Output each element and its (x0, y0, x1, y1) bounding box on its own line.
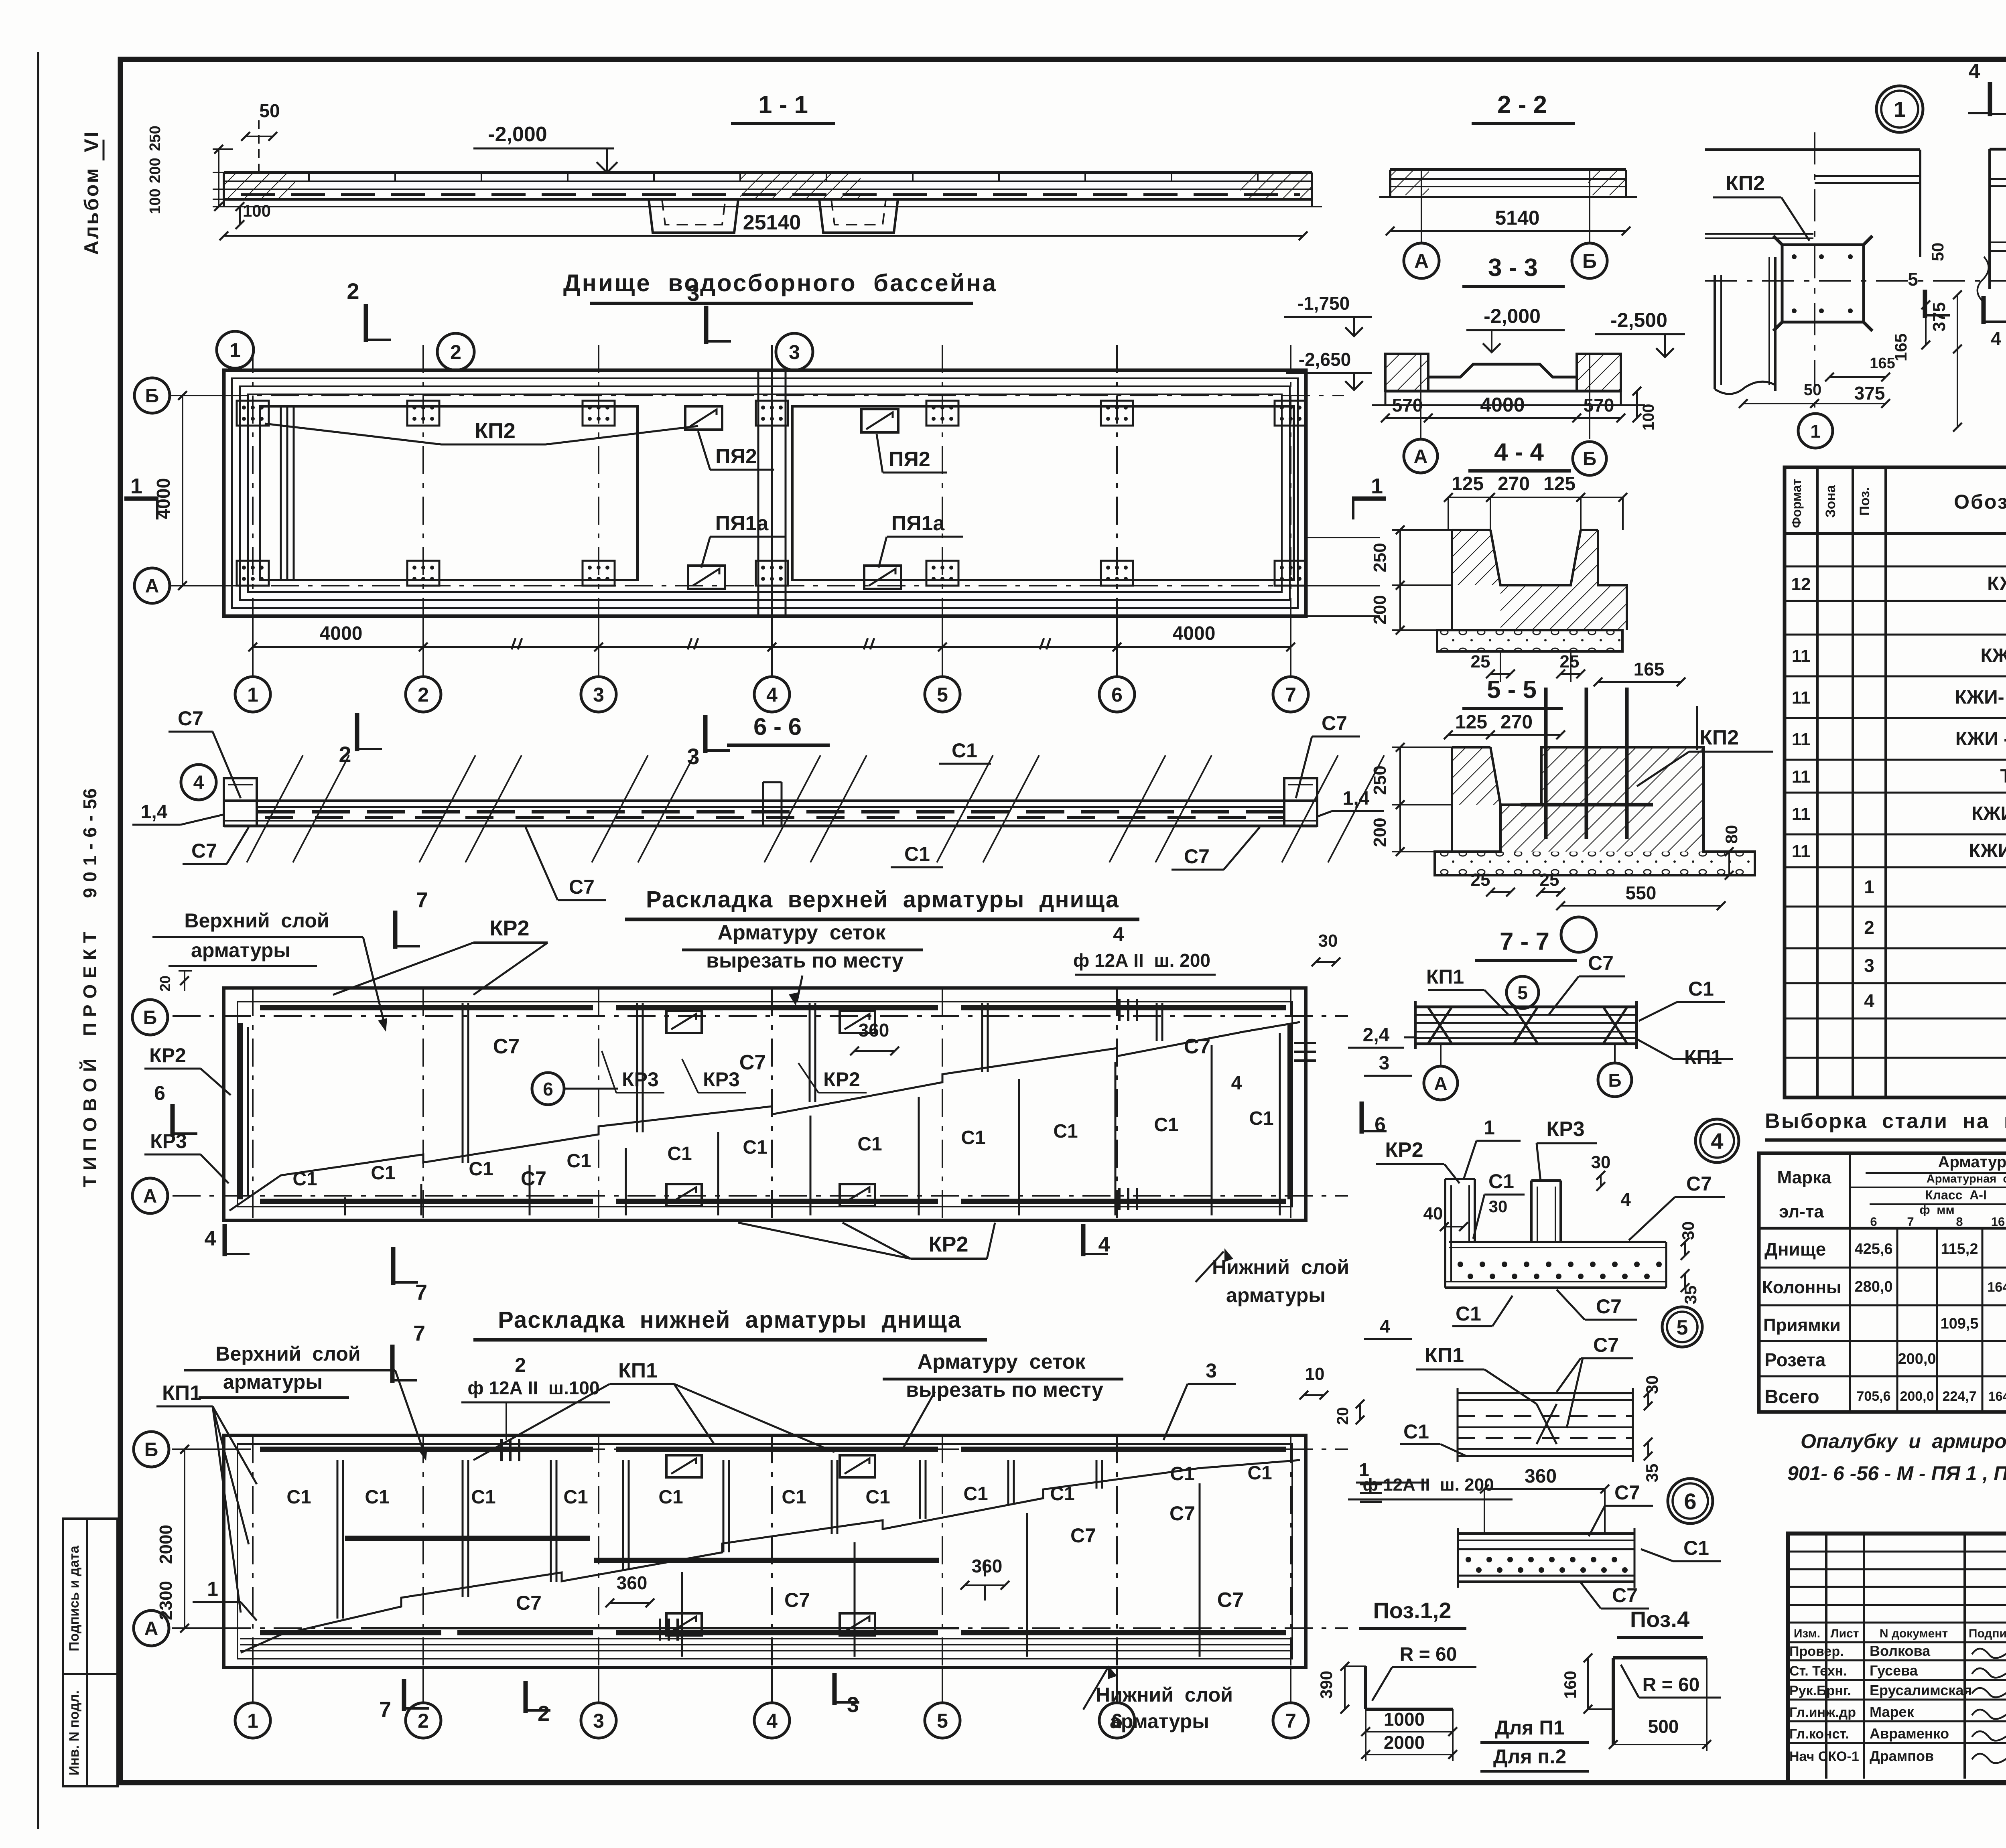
svg-text:арматуры: арматуры (191, 939, 290, 962)
svg-text:5: 5 (1517, 982, 1528, 1003)
svg-text:Формат: Формат (1789, 479, 1804, 528)
svg-text:С1: С1 (365, 1487, 389, 1508)
svg-text:КЖИ- С7, С8: КЖИ- С7, С8 (1969, 840, 2006, 862)
svg-text:N документ: N документ (1880, 1627, 1948, 1640)
svg-text:С7: С7 (1612, 1584, 1638, 1607)
svg-text:11: 11 (1792, 767, 1811, 787)
svg-text:КП2: КП2 (475, 419, 516, 443)
svg-text:Ст. Техн.: Ст. Техн. (1789, 1663, 1847, 1679)
dim 50 mark (258, 120, 260, 172)
svg-text:250: 250 (1370, 543, 1390, 572)
svg-text:арматуры: арматуры (1226, 1284, 1326, 1306)
svg-text:360: 360 (972, 1556, 1003, 1576)
svg-text:Арматуру сеток: Арматуру сеток (718, 921, 886, 944)
svg-text:Б: Б (143, 1007, 157, 1028)
svg-text:Б: Б (1582, 250, 1597, 272)
svg-text:1: 1 (130, 474, 142, 498)
svg-text:КП2: КП2 (1726, 172, 1765, 195)
svg-text:С7: С7 (1596, 1295, 1622, 1318)
section 7-7 strip (1415, 1006, 1636, 1008)
svg-text:2: 2 (418, 1710, 429, 1732)
svg-text:Класс А-I: Класс А-I (1925, 1188, 1987, 1202)
dim 25140 (224, 235, 1303, 237)
svg-text:Альбом VI: Альбом VI (80, 130, 103, 255)
svg-text:Гл.конст.: Гл.конст. (1789, 1726, 1849, 1742)
upper layout pits (666, 1011, 702, 1033)
svg-text:А: А (144, 1618, 158, 1639)
svg-text:2: 2 (450, 341, 461, 363)
upper layout left edge bars (238, 1023, 243, 1199)
plan row axes (170, 395, 1344, 396)
spec table grid (1785, 467, 2006, 1097)
svg-text:С7: С7 (1614, 1481, 1640, 1504)
svg-text:4: 4 (1380, 1316, 1390, 1337)
svg-text:Подпись: Подпись (1969, 1627, 2006, 1640)
svg-text:200: 200 (1370, 595, 1390, 624)
svg-text:С7: С7 (1184, 1035, 1210, 1058)
svg-text:1: 1 (247, 684, 258, 706)
svg-text:2000: 2000 (1384, 1732, 1425, 1753)
plan outline walls (224, 370, 1306, 616)
svg-text:Арматурная сталь ГОСТ 5781-7: Арматурная сталь ГОСТ 5781-75 (1927, 1172, 2006, 1185)
section 4-4 body (1437, 530, 1452, 630)
detail callout circles 4 and 5 (1695, 1119, 1739, 1162)
section 2-2 strip (1390, 168, 1626, 171)
svg-text:7: 7 (379, 1698, 391, 1722)
svg-text:R = 60: R = 60 (1400, 1644, 1457, 1665)
svg-text:4000: 4000 (1173, 623, 1216, 644)
svg-text:25: 25 (1471, 870, 1490, 890)
svg-text:Нач СКО-1: Нач СКО-1 (1789, 1749, 1859, 1764)
svg-text:С1: С1 (469, 1158, 493, 1180)
svg-text:ф 12А II ш. 200: ф 12А II ш. 200 (1073, 950, 1210, 971)
KP2 rebar in 5-5 (1544, 688, 1548, 839)
axes of 7-7 (1440, 1044, 1442, 1065)
svg-text:Подпись и дата: Подпись и дата (67, 1545, 82, 1651)
svg-text:ПЯ2: ПЯ2 (889, 448, 930, 471)
svg-text:Б: Б (1608, 1070, 1621, 1091)
dims 25 25 165 of 4-4 (1490, 673, 1511, 675)
svg-text:35: 35 (1643, 1464, 1661, 1483)
svg-text:С1: С1 (743, 1137, 767, 1158)
svg-text:-2,650: -2,650 (1299, 349, 1351, 370)
dims 125 270 125 (1448, 497, 1623, 498)
svg-text:Рук.Брнг.: Рук.Брнг. (1789, 1683, 1851, 1698)
svg-text:4: 4 (1864, 990, 1874, 1011)
svg-text:Провер.: Провер. (1789, 1644, 1844, 1659)
plan grid circles top (217, 331, 254, 368)
svg-text:160: 160 (1561, 1671, 1580, 1699)
svg-text:С7: С7 (1686, 1172, 1712, 1195)
svg-text:1: 1 (1864, 876, 1874, 897)
svg-text:100: 100 (243, 201, 271, 220)
plan left dim 4000 (182, 396, 183, 586)
node 2 wall band (1990, 148, 2006, 151)
svg-text:1: 1 (247, 1710, 258, 1732)
svg-text:Ерусалимская: Ерусалимская (1870, 1682, 1972, 1698)
svg-text:Нижний слой: Нижний слой (1096, 1684, 1233, 1706)
svg-text:С1: С1 (1249, 1108, 1273, 1129)
steel table frame (1759, 1153, 2006, 1412)
svg-text:2300: 2300 (156, 1581, 176, 1620)
svg-text:-1,750: -1,750 (1297, 293, 1350, 314)
svg-text:Марек: Марек (1870, 1704, 1914, 1720)
svg-text:125: 125 (1543, 473, 1576, 495)
svg-text:1: 1 (207, 1578, 218, 1600)
svg-text:С7: С7 (1184, 845, 1210, 868)
lower layout bottom band lines (240, 1644, 1290, 1645)
svg-text:Марка: Марка (1777, 1168, 1831, 1187)
svg-text:С1: С1 (1053, 1121, 1078, 1142)
left dims of 5-5 (1399, 747, 1401, 852)
svg-text:4: 4 (205, 1227, 216, 1250)
svg-text:С7: С7 (1169, 1502, 1195, 1525)
svg-text:Авраменко: Авраменко (1870, 1725, 1949, 1742)
detail node 1 top circle (1876, 86, 1923, 132)
node 1 left vertical wall (1714, 275, 1716, 389)
svg-text:Лист: Лист (1831, 1627, 1859, 1640)
svg-text:А: А (1434, 1073, 1447, 1094)
svg-text:КР3: КР3 (622, 1068, 659, 1091)
svg-text:270: 270 (1500, 712, 1533, 733)
svg-text:Дрампов: Дрампов (1870, 1748, 1934, 1764)
svg-text:С1: С1 (1403, 1420, 1429, 1443)
left dims 250 200 of 4-4 (1399, 530, 1401, 630)
svg-text:360: 360 (859, 1020, 889, 1041)
svg-text:С1: С1 (667, 1143, 692, 1164)
section 6-6 labels (181, 765, 216, 800)
svg-text:R = 60: R = 60 (1643, 1674, 1700, 1696)
svg-text:7: 7 (413, 1321, 425, 1345)
svg-text:270: 270 (1498, 473, 1530, 495)
svg-text:375: 375 (1929, 302, 1949, 331)
svg-text:7: 7 (416, 888, 428, 912)
lower layout grid verticals (252, 1435, 254, 1667)
lower layout bottom flags (402, 1679, 406, 1711)
svg-text:С7: С7 (1070, 1524, 1096, 1547)
svg-text:115,2: 115,2 (1941, 1241, 1978, 1258)
svg-text:1 - 1: 1 - 1 (758, 91, 808, 119)
svg-text:360: 360 (617, 1572, 648, 1593)
svg-text:11: 11 (1792, 804, 1811, 824)
svg-text:10: 10 (1305, 1364, 1325, 1384)
svg-text:30: 30 (1643, 1375, 1661, 1394)
axes A B of 2-2 (1421, 170, 1422, 243)
svg-text:570: 570 (1392, 395, 1423, 416)
svg-text:То же: То же (2000, 766, 2006, 787)
lower layout rebar bars (260, 1447, 593, 1452)
upper layout panel verticals (344, 1197, 346, 1215)
upper layout row axes (173, 1015, 1348, 1017)
lower layout stair line (281, 1460, 1300, 1635)
svg-text:КЖИ-С1÷С3: КЖИ-С1÷С3 (1971, 803, 2006, 824)
svg-text:4: 4 (1098, 1233, 1110, 1256)
detail 6 strip (1458, 1392, 1633, 1394)
svg-text:КП1: КП1 (618, 1359, 658, 1382)
section 6-6 strip (224, 799, 1317, 802)
svg-text:3: 3 (1206, 1359, 1217, 1382)
svg-text:КР2: КР2 (823, 1068, 860, 1091)
svg-text:1: 1 (1894, 97, 1906, 122)
bottom left stamp boxes (63, 1519, 118, 1786)
svg-text:7 - 7: 7 - 7 (1500, 928, 1549, 955)
svg-text:125: 125 (1452, 473, 1484, 495)
lower layout bottom circles (252, 1667, 254, 1703)
section 3-3 body (1385, 353, 1428, 355)
lower layout row axes (173, 1448, 1348, 1450)
svg-text:3: 3 (687, 280, 699, 306)
callout circle 6 (1668, 1479, 1713, 1523)
lower layout outline (224, 1435, 1306, 1667)
dims 570 4000 570 (1385, 417, 1621, 419)
node 1 axis vertical (1814, 132, 1815, 413)
svg-text:4: 4 (1711, 1128, 1723, 1154)
plan row circles (134, 378, 170, 413)
svg-text:С1: С1 (658, 1487, 683, 1508)
lower layout hash groups (659, 1619, 661, 1641)
svg-text:С1: С1 (1488, 1170, 1514, 1193)
svg-text:7: 7 (1285, 1710, 1296, 1732)
svg-text:4: 4 (193, 772, 204, 793)
svg-text:12: 12 (1791, 574, 1811, 594)
svg-text:Выборка стали на монолитные: Выборка стали на монолитные конструкции … (1765, 1110, 2006, 1133)
svg-text:КЖИ- КР4 , КП2: КЖИ- КР4 , КП2 (1955, 687, 2006, 708)
section 6-6 end blocks (224, 778, 257, 826)
svg-text:Колонны: Колонны (1762, 1278, 1842, 1297)
svg-text:Поз.1,2: Поз.1,2 (1373, 1598, 1452, 1623)
svg-text:200,0: 200,0 (1900, 1389, 1934, 1404)
section 6-6 diagonals (247, 755, 303, 862)
svg-text:А: А (1414, 446, 1428, 467)
svg-text:4: 4 (1991, 328, 2001, 349)
svg-text:С1: С1 (1683, 1537, 1709, 1559)
svg-text:25: 25 (1560, 652, 1580, 671)
svg-text:Поз.: Поз. (1857, 487, 1872, 515)
svg-text:Раскладка верхней арматуры: Раскладка верхней арматуры днища (646, 886, 1119, 913)
svg-text:С1: С1 (1170, 1463, 1194, 1485)
svg-text:4: 4 (1969, 60, 1980, 83)
svg-text:С7: С7 (178, 707, 203, 730)
svg-text:6: 6 (1684, 1489, 1696, 1514)
upper layout grid verticals (252, 988, 254, 1220)
plan priyamki rectangles (685, 406, 722, 430)
svg-text:А: А (143, 1186, 157, 1207)
svg-text:С1: С1 (952, 739, 977, 762)
svg-text:А: А (145, 576, 159, 597)
upper layout top rebar bars (260, 1005, 593, 1010)
svg-text:Т И П О В О Й П Р О Е К Т: Т И П О В О Й П Р О Е К Т 9 0 1 - 6 - 56 (79, 788, 100, 1187)
upper layout stair line (229, 1022, 1300, 1211)
column mass of 5-5 (1435, 747, 1755, 875)
svg-text:С1: С1 (961, 1127, 985, 1148)
upper layout outline (224, 988, 1306, 1220)
svg-text:Б: Б (145, 385, 159, 407)
svg-text:125: 125 (1455, 712, 1487, 733)
svg-text:165: 165 (1870, 355, 1895, 372)
common horizontal axis line through details (1705, 280, 2006, 282)
svg-text:ПЯ1а: ПЯ1а (891, 512, 945, 535)
svg-text:КР2: КР2 (149, 1044, 186, 1067)
svg-text:390: 390 (1317, 1671, 1336, 1699)
plan column pads (237, 401, 269, 426)
svg-text:КР2: КР2 (928, 1232, 968, 1256)
svg-text:164,2: 164,2 (1988, 1389, 2006, 1404)
svg-text:С1: С1 (782, 1487, 806, 1508)
svg-text:11: 11 (1792, 730, 1811, 749)
base slab of 4-4 (1437, 630, 1622, 651)
svg-text:арматуры: арматуры (223, 1371, 323, 1393)
plan right side extension lines (1306, 537, 1380, 538)
svg-text:Гусева: Гусева (1870, 1662, 1918, 1679)
svg-text:500: 500 (1648, 1716, 1679, 1737)
svg-text:2,4: 2,4 (1363, 1024, 1390, 1046)
svg-text:4000: 4000 (153, 478, 174, 519)
svg-text:Б: Б (1583, 448, 1597, 470)
svg-text:-2,000: -2,000 (488, 123, 547, 146)
detail 4 KR3 channel (1530, 1181, 1533, 1242)
svg-text:Днище: Днище (1764, 1239, 1826, 1260)
ring between 5-5 and 7-7 (1561, 917, 1596, 952)
dim 5140 (1390, 230, 1626, 232)
svg-text:С1: С1 (904, 843, 930, 865)
svg-text:1: 1 (1484, 1116, 1495, 1139)
svg-text:550: 550 (1626, 882, 1657, 903)
lower layout panel verticals (337, 1460, 339, 1619)
svg-text:250: 250 (147, 126, 164, 151)
svg-text:Нижний слой: Нижний слой (1212, 1256, 1349, 1278)
svg-text:А: А (1414, 250, 1429, 272)
svg-text:11: 11 (1792, 688, 1811, 708)
svg-text:16: 16 (1991, 1215, 2005, 1229)
svg-text:25140: 25140 (743, 211, 801, 234)
svg-text:-2,000: -2,000 (1484, 305, 1541, 327)
dims 25 25 550 of 5-5 (1490, 891, 1511, 893)
svg-text:4: 4 (1113, 923, 1124, 945)
svg-text:5140: 5140 (1495, 207, 1539, 229)
svg-text:5: 5 (937, 684, 948, 706)
svg-text:5: 5 (1677, 1316, 1688, 1339)
svg-text:280,0: 280,0 (1854, 1278, 1892, 1295)
svg-text:25: 25 (1540, 870, 1559, 890)
svg-text:Для п.2: Для п.2 (1493, 1745, 1566, 1768)
svg-text:200: 200 (1370, 818, 1390, 847)
svg-text:224,7: 224,7 (1942, 1389, 1976, 1404)
svg-text:С7: С7 (569, 876, 595, 898)
svg-text:20: 20 (1334, 1407, 1352, 1425)
svg-text:ф мм: ф мм (1919, 1203, 1954, 1217)
axes A B of 3-3 (1420, 354, 1421, 439)
svg-text:С7: С7 (1593, 1334, 1619, 1356)
svg-text:ф 12А II ш.100: ф 12А II ш.100 (467, 1377, 599, 1398)
svg-text:6: 6 (1111, 684, 1123, 706)
svg-text:6: 6 (1870, 1215, 1877, 1229)
svg-text:3 - 3: 3 - 3 (1488, 254, 1538, 282)
node 1 wall band (1705, 148, 1920, 151)
svg-text:2: 2 (347, 278, 359, 304)
svg-text:6: 6 (543, 1079, 553, 1099)
svg-text:1000: 1000 (1384, 1709, 1425, 1730)
detail 4 slab (1449, 1241, 1666, 1243)
svg-text:5: 5 (1908, 269, 1918, 290)
svg-text:1: 1 (1810, 421, 1821, 442)
svg-text:С7: С7 (191, 840, 217, 862)
svg-text:2: 2 (1864, 917, 1874, 938)
svg-text:КЖИ-ТТ: КЖИ-ТТ (1987, 573, 2006, 594)
svg-text:КР2: КР2 (1385, 1138, 1423, 1162)
svg-text:Изм.: Изм. (1794, 1627, 1820, 1640)
svg-text:30: 30 (1679, 1221, 1697, 1240)
svg-text:165: 165 (1634, 659, 1665, 680)
svg-text:50: 50 (1928, 243, 1947, 262)
svg-text:80: 80 (1722, 825, 1741, 844)
upper layout small hash marks (1118, 999, 1121, 1021)
svg-text:С1: С1 (1456, 1302, 1481, 1325)
svg-text:4: 4 (1620, 1189, 1631, 1210)
detail poz4 dim 360 (1484, 1488, 1605, 1490)
svg-text:250: 250 (1370, 765, 1390, 795)
svg-text:Всего: Всего (1764, 1386, 1819, 1408)
plan bottom dim line (253, 646, 1291, 648)
svg-text:20: 20 (157, 976, 173, 992)
svg-text:1,4: 1,4 (141, 801, 168, 823)
svg-text:30: 30 (1489, 1197, 1508, 1216)
svg-text:Опалубку и армирование прия: Опалубку и армирование приямков см. на л… (1801, 1430, 2006, 1452)
svg-text:вырезать по месту: вырезать по месту (706, 949, 904, 972)
svg-text:705,6: 705,6 (1856, 1389, 1890, 1404)
svg-text:Днище водосборного бассейна: Днище водосборного бассейна (563, 270, 997, 296)
svg-text:С1: С1 (1688, 978, 1714, 1000)
svg-text:С1: С1 (566, 1150, 591, 1172)
svg-text:100: 100 (147, 189, 164, 214)
svg-text:С1: С1 (563, 1487, 588, 1508)
svg-text:25: 25 (1471, 652, 1490, 671)
svg-text:8: 8 (1956, 1215, 1963, 1229)
svg-text:С7: С7 (516, 1592, 542, 1614)
svg-text:С1: С1 (963, 1483, 988, 1505)
page edge line (37, 52, 39, 1829)
svg-text:7: 7 (1907, 1215, 1914, 1229)
svg-text:С1: С1 (1050, 1483, 1074, 1505)
svg-text:Приямки: Приямки (1763, 1315, 1841, 1335)
plan grid axes vertical (252, 345, 254, 682)
svg-text:ПЯ1а: ПЯ1а (715, 512, 769, 535)
plan left end double wall (280, 406, 282, 580)
section 6-6 mid joint (762, 782, 764, 826)
svg-text:570: 570 (1584, 395, 1614, 416)
svg-text:5 - 5: 5 - 5 (1487, 676, 1537, 704)
lower layout left dims (184, 1449, 185, 1628)
node 1 dims (1957, 295, 1958, 427)
svg-text:425,6: 425,6 (1854, 1241, 1892, 1258)
svg-text:2: 2 (515, 1354, 526, 1376)
svg-text:КП1: КП1 (1425, 1344, 1464, 1367)
svg-text:КЖИ- КП1: КЖИ- КП1 (1981, 645, 2006, 666)
svg-text:арматуры: арматуры (1110, 1710, 1209, 1732)
plan grid circles bottom (235, 677, 270, 712)
svg-text:С1: С1 (371, 1162, 395, 1184)
svg-text:С1: С1 (857, 1134, 882, 1155)
svg-text:КЖИ - КР2, КР3: КЖИ - КР2, КР3 (1955, 728, 2006, 750)
steel table columns (1849, 1228, 1851, 1412)
svg-text:3: 3 (847, 1693, 859, 1717)
svg-text:3: 3 (789, 341, 800, 363)
svg-text:11: 11 (1792, 842, 1811, 861)
left dims of 1-1 (213, 148, 233, 150)
svg-text:эл-та: эл-та (1779, 1202, 1824, 1221)
svg-text:С7: С7 (739, 1051, 766, 1074)
svg-text:ф 12А II ш. 200: ф 12А II ш. 200 (1362, 1475, 1494, 1495)
svg-text:50: 50 (259, 100, 280, 121)
